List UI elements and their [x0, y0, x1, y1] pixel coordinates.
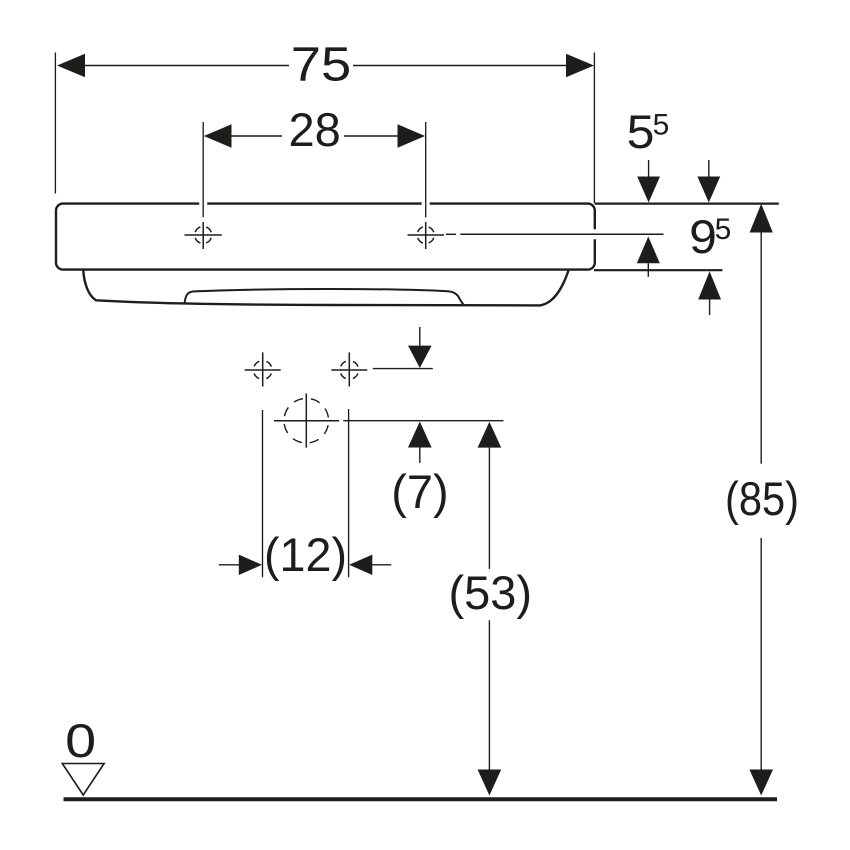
datum zero label	[62, 714, 104, 795]
faucet hole right (crosshair + dashed circle)	[408, 222, 445, 249]
basin skirt (underside profile)	[83, 271, 568, 306]
top edge extension line to the right	[595, 203, 779, 205]
svg-text:75: 75	[291, 39, 352, 92]
drain hole (dashed circle + crosshair)	[274, 394, 339, 448]
svg-text:28: 28	[288, 103, 340, 156]
mid crosshair right	[331, 352, 367, 386]
dimension 9.5 (95)	[689, 160, 731, 315]
dimension 28	[203, 103, 426, 217]
dimension (7)	[391, 327, 448, 518]
faucet hole left (crosshair + dashed circle)	[185, 222, 222, 249]
basin underside recess detail	[185, 289, 464, 305]
svg-text:(7): (7)	[391, 465, 448, 518]
svg-text:9: 9	[689, 210, 717, 263]
ground line	[64, 797, 778, 801]
svg-text:(53): (53)	[449, 566, 533, 619]
svg-text:(85): (85)	[725, 472, 799, 525]
svg-text:5: 5	[627, 105, 655, 158]
svg-text:0: 0	[65, 714, 96, 767]
mid crosshair left	[245, 352, 281, 386]
dimension (12)	[219, 409, 391, 581]
basin rim band (front view upper body)	[56, 204, 595, 270]
svg-text:5: 5	[715, 213, 732, 246]
dimension (85)	[725, 204, 799, 796]
svg-text:(12): (12)	[264, 528, 347, 581]
dimension 5.5 (55)	[627, 105, 670, 277]
drain centerline extending right (7/53 lower reference)	[343, 420, 503, 422]
dimension 75	[55, 39, 594, 204]
faucet centerline extending right (dashed, with white casing)	[444, 229, 664, 239]
dimension (53)	[449, 422, 533, 796]
bottom edge extension line to the right	[594, 269, 722, 271]
svg-text:5: 5	[653, 108, 670, 141]
line right of mid crosshair (7 dim upper reference)	[373, 368, 433, 370]
